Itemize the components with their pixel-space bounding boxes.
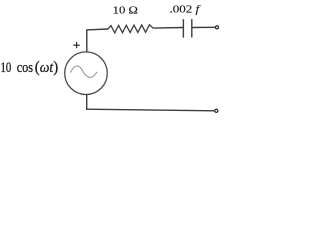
wire resistor to capacitor — [153, 27, 183, 30]
resistor R1 zigzag — [108, 25, 153, 33]
capacitor C1 left plate — [182, 19, 184, 38]
plus polarity sign — [73, 42, 79, 48]
wire top left segment — [86, 28, 108, 31]
bottom output terminal — [215, 109, 218, 112]
wire bottom rail — [86, 109, 215, 111]
svg-text:cos: cos — [17, 60, 34, 76]
svg-text:.002 f: .002 f — [170, 3, 202, 15]
svg-text:(ωt): (ωt) — [35, 59, 58, 76]
svg-text:10: 10 — [1, 60, 12, 76]
voltage source V1 circle — [65, 52, 108, 95]
svg-text:10 Ω: 10 Ω — [113, 5, 138, 17]
label source value 10 cos (wt) — [1, 59, 59, 76]
wire riser from source top — [86, 30, 88, 52]
wire capacitor to top terminal — [192, 26, 215, 28]
voltage source sine symbol — [71, 66, 98, 78]
capacitor C1 right plate — [191, 19, 193, 38]
wire stub from source bottom — [86, 94, 88, 110]
top output terminal — [215, 26, 218, 29]
